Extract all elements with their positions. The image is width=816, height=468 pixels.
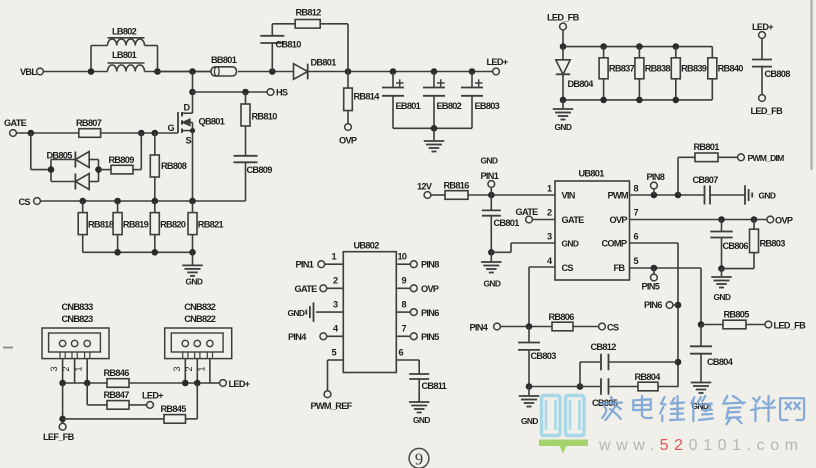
svg-text:PWM_DIM: PWM_DIM bbox=[748, 153, 785, 163]
svg-text:PIN5: PIN5 bbox=[421, 332, 439, 342]
svg-text:9: 9 bbox=[402, 276, 407, 286]
svg-text:CS: CS bbox=[19, 197, 31, 207]
svg-text:GND: GND bbox=[413, 415, 430, 425]
svg-text:PIN4: PIN4 bbox=[470, 323, 489, 333]
svg-text:LED+: LED+ bbox=[142, 391, 163, 401]
svg-text:VBL: VBL bbox=[20, 67, 37, 77]
svg-text:OVP: OVP bbox=[610, 215, 628, 225]
svg-text:LED_FB: LED_FB bbox=[547, 13, 580, 23]
svg-text:RB804: RB804 bbox=[635, 372, 662, 382]
svg-text:PIN8: PIN8 bbox=[647, 172, 665, 182]
svg-text:GATE: GATE bbox=[562, 215, 585, 225]
svg-text:GATE: GATE bbox=[516, 207, 539, 217]
svg-text:5: 5 bbox=[332, 348, 337, 358]
svg-text:RB839: RB839 bbox=[681, 64, 707, 74]
svg-text:RB812: RB812 bbox=[296, 8, 322, 18]
svg-text:DB801: DB801 bbox=[311, 58, 337, 68]
svg-text:LED_FB: LED_FB bbox=[751, 106, 784, 116]
svg-text:EB802: EB802 bbox=[437, 101, 462, 111]
svg-text:3: 3 bbox=[333, 300, 338, 310]
svg-text:CB812: CB812 bbox=[591, 342, 617, 352]
svg-text:RB845: RB845 bbox=[161, 404, 187, 414]
svg-text:OVP: OVP bbox=[339, 136, 357, 146]
svg-text:CB807: CB807 bbox=[693, 175, 719, 185]
svg-text:GND: GND bbox=[186, 277, 203, 287]
svg-text:CNB833: CNB833 bbox=[62, 302, 94, 312]
svg-text:5: 5 bbox=[634, 256, 639, 266]
svg-text:GND: GND bbox=[481, 156, 498, 166]
svg-text:2: 2 bbox=[547, 208, 552, 218]
svg-text:RB837: RB837 bbox=[609, 64, 635, 74]
svg-text:RB801: RB801 bbox=[694, 142, 720, 152]
svg-text:GND: GND bbox=[555, 122, 572, 132]
svg-text:EB803: EB803 bbox=[475, 101, 500, 111]
svg-text:6: 6 bbox=[634, 232, 639, 242]
svg-text:CS: CS bbox=[607, 323, 619, 333]
svg-text:RB847: RB847 bbox=[104, 390, 130, 400]
svg-text:3: 3 bbox=[172, 366, 182, 371]
svg-text:PIN1: PIN1 bbox=[481, 171, 499, 181]
svg-text:10: 10 bbox=[398, 252, 407, 262]
svg-text:3: 3 bbox=[49, 366, 59, 371]
svg-text:UB802: UB802 bbox=[354, 241, 380, 251]
svg-text:PIN6: PIN6 bbox=[644, 300, 662, 310]
svg-text:FB: FB bbox=[614, 263, 626, 273]
svg-text:LED+: LED+ bbox=[229, 379, 250, 389]
svg-text:QB801: QB801 bbox=[199, 117, 225, 127]
svg-text:CNB832: CNB832 bbox=[184, 302, 216, 312]
svg-text:CB811: CB811 bbox=[422, 381, 447, 391]
svg-text:2: 2 bbox=[184, 366, 194, 371]
svg-text:DB805: DB805 bbox=[47, 151, 73, 161]
svg-text:BB801: BB801 bbox=[211, 55, 237, 65]
svg-text:GND: GND bbox=[714, 292, 731, 302]
svg-text:PWM_REF: PWM_REF bbox=[311, 401, 353, 411]
svg-text:RB806: RB806 bbox=[549, 312, 575, 322]
svg-text:RB805: RB805 bbox=[724, 310, 750, 320]
svg-text:GATE: GATE bbox=[4, 118, 27, 128]
svg-text:CNB822: CNB822 bbox=[184, 314, 216, 324]
svg-text:8: 8 bbox=[634, 184, 639, 194]
svg-text:PWM: PWM bbox=[608, 191, 629, 201]
svg-text:RB819: RB819 bbox=[123, 220, 149, 230]
svg-text:GND: GND bbox=[759, 191, 776, 201]
svg-text:CB806: CB806 bbox=[723, 241, 749, 251]
svg-text:RB814: RB814 bbox=[354, 92, 381, 102]
svg-text:RB818: RB818 bbox=[88, 220, 114, 230]
svg-text:2: 2 bbox=[61, 366, 71, 371]
svg-text:HS: HS bbox=[276, 88, 288, 98]
svg-text:3: 3 bbox=[547, 232, 552, 242]
svg-text:PIN1: PIN1 bbox=[296, 260, 314, 270]
svg-text:8: 8 bbox=[402, 300, 407, 310]
svg-text:VIN: VIN bbox=[562, 191, 576, 201]
svg-text:9: 9 bbox=[415, 450, 423, 468]
svg-text:CB808: CB808 bbox=[765, 69, 791, 79]
svg-text:PIN8: PIN8 bbox=[421, 260, 439, 270]
svg-text:LED+: LED+ bbox=[487, 57, 508, 67]
svg-text:CB809: CB809 bbox=[247, 165, 273, 175]
svg-text:COMP: COMP bbox=[602, 239, 627, 249]
svg-text:GND: GND bbox=[521, 416, 538, 426]
svg-text:OVP: OVP bbox=[421, 284, 439, 294]
svg-text:GND: GND bbox=[288, 308, 305, 318]
svg-text:RB803: RB803 bbox=[760, 239, 786, 249]
svg-text:LB801: LB801 bbox=[112, 50, 137, 60]
svg-text:LED_FB: LED_FB bbox=[774, 321, 807, 331]
svg-text:CB810: CB810 bbox=[276, 40, 302, 50]
svg-text:CS: CS bbox=[562, 263, 574, 273]
svg-text:RB840: RB840 bbox=[718, 64, 744, 74]
svg-text:6: 6 bbox=[399, 348, 404, 358]
svg-text:LB802: LB802 bbox=[112, 27, 137, 37]
svg-text:1: 1 bbox=[196, 366, 206, 371]
svg-text:CB804: CB804 bbox=[707, 357, 734, 367]
svg-text:1: 1 bbox=[332, 252, 337, 262]
svg-text:12V: 12V bbox=[417, 182, 433, 192]
svg-text:CNB823: CNB823 bbox=[62, 314, 94, 324]
svg-text:RB816: RB816 bbox=[444, 181, 470, 191]
svg-text:LEF_FB: LEF_FB bbox=[43, 432, 75, 442]
svg-text:1: 1 bbox=[547, 184, 552, 194]
svg-text:RB810: RB810 bbox=[252, 112, 278, 122]
svg-text:RB846: RB846 bbox=[104, 368, 130, 378]
svg-text:GND: GND bbox=[562, 239, 579, 249]
svg-text:7: 7 bbox=[402, 324, 407, 334]
svg-text:DB804: DB804 bbox=[568, 79, 595, 89]
svg-text:PIN5: PIN5 bbox=[642, 282, 660, 292]
svg-text:OVP: OVP bbox=[775, 216, 793, 226]
svg-text:RB838: RB838 bbox=[645, 64, 671, 74]
svg-text:www.520101.com: www.520101.com bbox=[598, 437, 804, 454]
svg-text:RB807: RB807 bbox=[76, 118, 102, 128]
svg-text:UB801: UB801 bbox=[579, 169, 605, 179]
svg-text:PIN4: PIN4 bbox=[288, 332, 307, 342]
svg-text:2: 2 bbox=[333, 276, 338, 286]
svg-text:CB803: CB803 bbox=[531, 351, 557, 361]
svg-text:LED+: LED+ bbox=[752, 22, 773, 32]
svg-text:CB801: CB801 bbox=[494, 218, 520, 228]
svg-text:RB809: RB809 bbox=[109, 155, 135, 165]
svg-text:S: S bbox=[186, 136, 192, 146]
svg-text:G: G bbox=[168, 123, 175, 133]
svg-text:PIN6: PIN6 bbox=[421, 308, 439, 318]
svg-text:GND: GND bbox=[484, 279, 501, 289]
svg-text:7: 7 bbox=[634, 208, 639, 218]
svg-text:GATE: GATE bbox=[295, 284, 318, 294]
svg-text:RB808: RB808 bbox=[161, 161, 187, 171]
svg-text:EB801: EB801 bbox=[396, 101, 421, 111]
svg-text:RB821: RB821 bbox=[198, 220, 224, 230]
svg-text:RB820: RB820 bbox=[160, 220, 186, 230]
svg-text:1: 1 bbox=[74, 366, 84, 371]
